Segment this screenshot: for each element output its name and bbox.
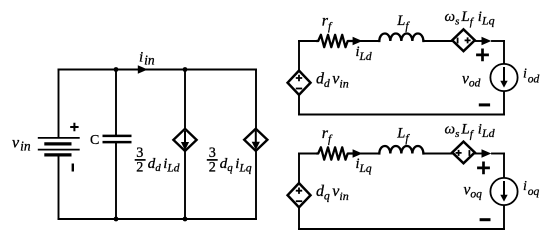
svg-text:3: 3 <box>209 145 216 161</box>
svg-text:2: 2 <box>209 160 216 176</box>
svg-text:3: 3 <box>136 145 143 161</box>
svg-text:2: 2 <box>136 160 143 176</box>
svg-text:iin: iin <box>139 50 155 68</box>
svg-text:C: C <box>90 133 99 148</box>
